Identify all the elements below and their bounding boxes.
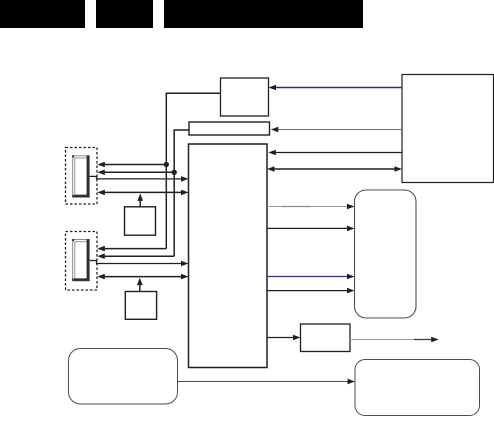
arrow: central box B3 to small box B6 <box>267 335 301 341</box>
block: small box top (B1) <box>221 78 269 116</box>
block: large box top right (B4) <box>402 75 494 183</box>
wire+arrow: J2 to central box (row 3) <box>90 261 189 267</box>
block: small square box left upper (B9) <box>125 207 156 235</box>
arrow: bus1 to J2 (row 1) <box>97 246 166 252</box>
block: small square box left lower (B10) <box>125 292 156 320</box>
dashed box 1 (connector enclosure top left) <box>66 148 98 205</box>
arrow (gray then dark): small box B6 output to right <box>350 337 439 343</box>
connector symbol J1 <box>72 155 89 197</box>
wire+arrow: J1 to central box (row 3) <box>90 176 189 182</box>
arrow: central box B3 / large box B4 bidirectional <box>267 166 402 172</box>
arrow (gray): large box B4 to thin box B2 <box>271 127 402 133</box>
block: small box bottom middle (B6) <box>301 324 351 352</box>
block: rounded box middle right (B5) <box>355 190 417 318</box>
arrow: B10 up to row 4 <box>137 278 143 292</box>
arrow: J2 / central box bidirectional (row 4) <box>97 274 188 280</box>
arrow: bus1 to J1 (row 1) <box>97 162 166 168</box>
arrow: bus2 to J2 (row 2) <box>97 253 174 259</box>
arrow: central box B3 to rounded box B5 row 2 <box>267 226 355 232</box>
arrow: rounded box B7 to rounded box B8 <box>178 379 356 385</box>
block: rounded box bottom right (B8) <box>355 360 480 416</box>
block: central tall box (B3) <box>189 144 268 368</box>
arrow: B9 up to row 4 <box>137 193 143 206</box>
dashed box 2 (connector enclosure bottom left) <box>66 232 98 291</box>
junction dot on bus 2 <box>172 170 177 175</box>
arrow: large box B4 to central box B3 <box>268 150 402 156</box>
block: rounded box bottom left (B7) <box>69 349 178 405</box>
arrow (gray): central box B3 to rounded box B5 row 1 <box>267 204 355 210</box>
block: thin wide box (B2) <box>189 122 270 135</box>
arrow (navy): central box B3 to rounded box B5 row 3 <box>267 274 355 280</box>
redacted title bar 2 <box>96 0 153 28</box>
redacted title bar 3 <box>164 0 363 28</box>
arrow: J1 / central box bidirectional (row 4) <box>97 190 188 196</box>
connector symbol J2 <box>72 239 89 281</box>
wire: vertical bus line 1 with top bend to B1 <box>166 93 220 248</box>
junction dot on bus 1 <box>164 162 169 167</box>
redacted title bar 1 <box>0 0 85 28</box>
arrow: central box B3 to rounded box B5 row 4 <box>267 288 355 294</box>
arrow: bus2 to J1 (row 2) <box>97 170 174 176</box>
wire: vertical bus line 2 with top bend to B2 <box>174 130 189 256</box>
arrow (navy): large box B4 to small box B1 <box>269 85 403 91</box>
